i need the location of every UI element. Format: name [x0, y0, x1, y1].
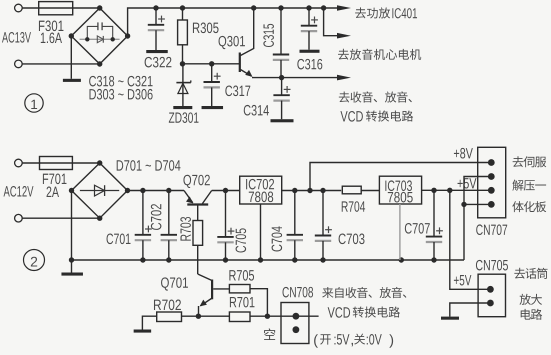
wire: R305 node to Q301 base — [180, 61, 240, 66]
resistor R702 — [157, 312, 182, 322]
connector CN708 — [281, 303, 309, 344]
connector CN705 — [478, 274, 505, 317]
wire: ground rail (bottom) — [72, 259, 465, 261]
wire: +5V drop to CN705 pin 1 — [450, 190, 491, 289]
wire: +8V line to CN707 pin 1 — [310, 163, 491, 191]
connector CN707 — [478, 147, 506, 218]
wire: AC12V input line 1 — [22, 162, 100, 164]
section circle 2 — [24, 250, 45, 271]
label C317 — [225, 86, 250, 97]
wire: R701 to CN708 — [250, 314, 319, 319]
zener diode ZD301 — [176, 64, 190, 106]
wire: ground to R702 — [142, 316, 156, 329]
capacitor C316 — [301, 8, 318, 50]
ground (bridge 1) — [63, 79, 81, 82]
wire: CN707 pin 4 to ground rail — [461, 202, 491, 260]
text 来自收音、放音、 — [322, 287, 406, 298]
wire: +5V rail to CN707 pin 3 — [422, 188, 492, 193]
wire: CN707 pin 2 to ground — [464, 177, 491, 205]
terminal: AC13V input terminal 2 — [15, 60, 23, 68]
label F701 2A — [43, 174, 67, 197]
resistor R703 — [193, 221, 203, 275]
label D303 ~ D306 — [89, 89, 152, 100]
label D701 ~ D704 — [117, 160, 181, 171]
wire: Q301 emitter output node — [252, 75, 338, 80]
capacitor C322 — [148, 8, 165, 50]
label R305 — [193, 23, 219, 34]
ground (ZD301) — [173, 106, 192, 109]
capacitor C701 — [135, 191, 152, 261]
label C704 (rotated) — [272, 226, 283, 251]
text 去话筒放大电路 — [514, 268, 547, 320]
wire: IC702 output rail — [282, 188, 342, 193]
transistor Q301 — [240, 8, 254, 77]
label R702 — [154, 300, 181, 311]
arrow to radio/tape/VCD circuits — [337, 75, 351, 81]
label +5V (CN705) — [454, 275, 471, 285]
ground (C317) — [202, 106, 224, 109]
capacitor C317 — [204, 64, 221, 106]
label R703 (rotated) — [180, 217, 191, 241]
wire: +12V unregulated rail — [128, 190, 240, 192]
regulator IC703 7805 — [379, 176, 421, 204]
ground (CN705) — [441, 317, 459, 320]
capacitor C702 — [161, 191, 177, 261]
capacitor C707 — [426, 190, 443, 260]
ground (C322) — [146, 50, 168, 53]
label C707 — [405, 223, 430, 234]
label CN707 — [476, 224, 507, 235]
fuse F301 — [39, 2, 73, 15]
label C315 (rotated) — [263, 24, 274, 47]
bridge 2 arm diode D701 — [80, 185, 119, 196]
label C314 — [244, 105, 269, 116]
capacitor C705 — [217, 191, 234, 261]
label +5V (CN707) — [458, 178, 477, 188]
label +8V — [454, 148, 473, 159]
bridge arm parallel capacitor C318 — [87, 22, 112, 39]
junction dots on bridge 1 — [69, 5, 131, 66]
label AC12V — [4, 186, 34, 197]
text 去伺服解压一体化板 — [512, 156, 546, 212]
text VCD转换电路 — [340, 110, 413, 121]
label C703 — [339, 234, 365, 245]
wire: branch to tape motor — [324, 8, 338, 36]
label R705 — [229, 270, 254, 281]
resistor R305 — [178, 8, 188, 64]
fuse F701 — [40, 157, 73, 170]
section circle 1 — [25, 94, 43, 112]
regulator IC702 7808 — [240, 176, 282, 204]
text VCD转换电路 (line 2) — [328, 306, 400, 317]
junction dots on bridge 2 — [69, 160, 130, 221]
wire: bridge minus to ground — [70, 36, 72, 79]
wire: +13V rail (top) — [128, 8, 338, 36]
junction dots on ground rail — [69, 257, 437, 262]
transistor Q702 — [184, 191, 212, 221]
bridge rectifier D303~D306 diamond — [71, 8, 127, 64]
wire: IC703 ground pin (grey) — [399, 204, 401, 260]
wire: Q701 base to R705 — [213, 288, 229, 290]
arrow to tape deck motor — [337, 33, 351, 39]
wire: AC input line 2 to bridge bottom vertex — [22, 63, 100, 65]
label CN708 — [283, 287, 314, 298]
label R704 — [342, 201, 365, 212]
capacitor C704 — [287, 191, 303, 261]
bridge arm diode D303 — [97, 36, 103, 43]
wire: bridge 2 minus down to ground rail — [71, 191, 73, 273]
label Q701 — [161, 277, 188, 290]
wire: AC input line 1 (top) — [22, 7, 100, 9]
resistor R701 — [229, 312, 250, 322]
ground (bridge 2) — [61, 273, 82, 276]
label Q301 — [219, 36, 245, 49]
junction dots on top rail — [153, 5, 326, 10]
label Q702 — [183, 175, 209, 188]
label C318 ~ C321 — [89, 76, 152, 87]
text 去功放 IC401 — [355, 7, 417, 18]
label C701 — [107, 234, 131, 245]
capacitor C315 — [273, 8, 289, 78]
terminal: AC12V input terminal 1 — [15, 159, 23, 167]
transistor Q701 — [198, 274, 212, 316]
label CN705 — [476, 260, 508, 271]
arrow to power amp IC401 — [337, 5, 351, 11]
resistor R705 — [229, 285, 267, 317]
label C322 — [145, 57, 172, 68]
label 空 (empty pin) — [264, 328, 275, 340]
resistor R704 — [342, 186, 379, 194]
capacitor C314 — [273, 78, 290, 120]
label C705 (rotated) — [236, 228, 247, 252]
label C316 — [297, 59, 322, 70]
label R701 — [230, 297, 255, 308]
bridge arm detail: grey lead line — [80, 38, 120, 40]
label ZD301 — [169, 112, 199, 123]
wire: AC input line 2 to bridge 2 — [22, 217, 100, 219]
text 去收音、放音、 — [339, 91, 412, 102]
ground (C316) — [300, 50, 320, 53]
wire: R702 to R701 (Q701 emitter node) — [182, 314, 230, 319]
text (开:5V,关:0V) — [314, 334, 393, 348]
text 去放音机心电机 — [338, 49, 421, 60]
terminal: AC13V input terminal 1 — [15, 4, 23, 12]
capacitor C703 — [315, 191, 332, 261]
wire: CN705 pin 2 to ground — [450, 303, 491, 317]
wire: IC702 ground pin — [260, 204, 262, 260]
terminal: AC12V input terminal 2 — [15, 214, 23, 222]
label F301 1.6A — [39, 21, 64, 44]
label AC13V — [2, 32, 31, 43]
label C702 (rotated) — [151, 204, 162, 230]
bridge rectifier D701~D704 diamond — [72, 163, 128, 218]
junction dots on +12V rail — [140, 188, 228, 193]
ground (C314) — [271, 119, 294, 122]
ground (R702) — [134, 330, 152, 333]
